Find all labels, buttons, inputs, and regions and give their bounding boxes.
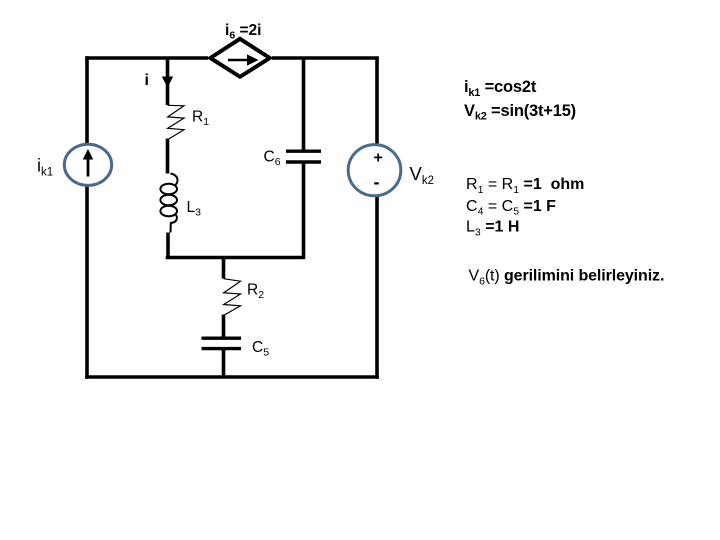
wire L3 to middle node [166,233,170,260]
svg-text:C5: C5 [252,339,269,359]
wire C6 branch upper [302,58,306,151]
resistor R1 [168,105,185,140]
wire R2 to C5 [222,315,226,339]
wire right vertical [375,58,379,379]
capacitor C6 [286,151,321,162]
wire R2 branch top [222,258,226,279]
voltage source Vk2 [348,145,401,196]
label i6 =2i [225,22,261,42]
svg-text:R2: R2 [247,282,264,302]
text equation ik1 [464,78,537,99]
label C5 [252,339,269,359]
label Vk2 [410,163,435,187]
svg-text:C4 = C5 =1 F: C4 = C5 =1 F [466,198,556,218]
dependent current source i6 (diamond) [210,39,269,77]
resistor R2 [224,279,241,316]
svg-text:-: - [374,172,380,192]
label C6 [264,149,281,169]
label ik1 [37,156,53,179]
current source ik1 [64,144,111,185]
text question [469,268,665,288]
svg-text:+: + [374,150,383,167]
svg-text:R1: R1 [192,109,209,129]
svg-text:Vk2 =sin(3t+15): Vk2 =sin(3t+15) [464,102,576,123]
svg-text:C6: C6 [264,149,281,169]
wire R1 branch top [166,58,170,105]
wire left vertical [85,56,89,379]
current arrow i [162,62,173,88]
label L3 [187,199,202,219]
text values C [466,198,556,218]
wire top right segment [272,56,379,60]
svg-text:ik1 =cos2t: ik1 =cos2t [464,78,537,99]
inductor L3 [160,174,177,233]
svg-text:V6(t) gerilimini belirleyiniz.: V6(t) gerilimini belirleyiniz. [469,268,665,288]
wire middle horizontal (L3/C6 bottom node) [166,256,304,260]
svg-text:L3: L3 [187,199,202,219]
wire C5 to bottom [222,349,226,377]
svg-text:R1 = R1 =1 ohm: R1 = R1 =1 ohm [466,176,584,196]
svg-text:i6 =2i: i6 =2i [225,22,261,42]
wire bottom [85,375,379,379]
svg-text:ik1: ik1 [37,156,53,179]
svg-text:i: i [145,72,149,89]
label i (branch current) [145,72,149,89]
text equation Vk2 [464,102,576,123]
label R1 [192,109,209,129]
text values R [466,176,584,196]
text values L [466,219,519,239]
svg-text:L3 =1 H: L3 =1 H [466,219,519,239]
wire top left segment [85,56,208,60]
wire C6 branch lower [302,162,306,259]
capacitor C5 [202,338,242,348]
wire between R1 and L3 [166,139,170,174]
label R2 [247,282,264,302]
svg-text:Vk2: Vk2 [410,163,435,187]
